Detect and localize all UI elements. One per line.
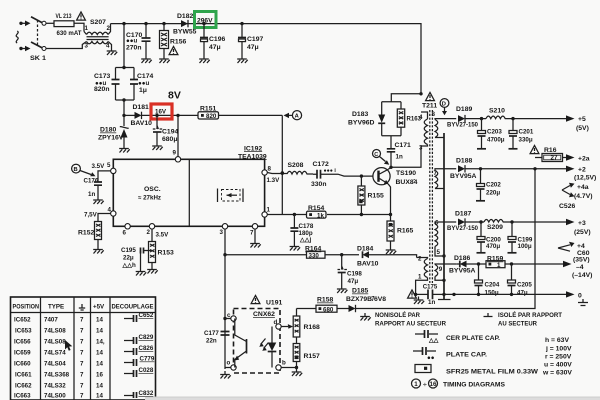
T211 core <box>430 110 433 283</box>
svg-text:RAPPORT AU SECTEUR: RAPPORT AU SECTEUR <box>375 321 446 328</box>
svg-text:14: 14 <box>96 317 103 324</box>
node B with arrow <box>72 164 81 173</box>
svg-text:100μ: 100μ <box>518 243 532 250</box>
svg-text:IC653: IC653 <box>15 328 32 335</box>
svg-text:(–14V): (–14V) <box>572 272 592 279</box>
svg-text:+3: +3 <box>578 220 586 227</box>
svg-text:VL 213: VL 213 <box>56 13 72 20</box>
node A <box>292 111 301 120</box>
capacitor C173 <box>112 80 120 85</box>
svg-text:820n: 820n <box>94 86 110 93</box>
nonisole text <box>360 313 371 321</box>
svg-text:27: 27 <box>551 155 558 162</box>
svg-text:3: 3 <box>220 229 224 236</box>
capacitor C200 <box>480 222 482 237</box>
svg-text:330μ: 330μ <box>519 137 533 144</box>
svg-text:(12,5V): (12,5V) <box>574 175 596 182</box>
junction opto top <box>223 317 226 320</box>
svg-text:C205: C205 <box>517 282 532 289</box>
switch SK1 pole 1 <box>31 17 43 23</box>
svg-text:C779: C779 <box>140 356 155 363</box>
svg-text:7: 7 <box>80 317 84 324</box>
switch linkage dashed <box>37 20 39 45</box>
pin 1 wire to R154 <box>267 214 306 216</box>
svg-text:D181: D181 <box>133 104 149 111</box>
svg-text:7: 7 <box>80 328 84 335</box>
capacitor C204 <box>478 264 480 280</box>
svg-text:0: 0 <box>578 293 582 300</box>
C173/C174 block wires <box>116 24 135 116</box>
sfr25 symbol <box>415 365 431 373</box>
svg-text:C204: C204 <box>485 282 500 289</box>
pin 5 <box>111 168 116 173</box>
svg-text:22μ: 22μ <box>123 255 134 262</box>
svg-text:74LS08: 74LS08 <box>44 339 66 346</box>
svg-text:C028: C028 <box>139 367 154 374</box>
svg-text:ISOLÉ PAR RAPPORT: ISOLÉ PAR RAPPORT <box>498 310 563 319</box>
pin 2 wire 3.5V <box>151 229 153 242</box>
svg-text:BYV95A: BYV95A <box>449 268 476 275</box>
svg-text:C: C <box>374 152 378 158</box>
svg-text:d: d <box>274 319 278 326</box>
svg-text:74LS04: 74LS04 <box>44 361 66 368</box>
svg-text:u = 400V: u = 400V <box>544 362 572 369</box>
svg-text:C829: C829 <box>139 334 154 341</box>
svg-text:R153: R153 <box>158 250 174 257</box>
diode D183 <box>381 102 383 115</box>
pin 8 <box>262 170 267 175</box>
svg-text:C652: C652 <box>139 312 154 319</box>
transistor TS190 <box>373 168 390 185</box>
pin 2 <box>149 224 154 229</box>
wire switch to fuse <box>46 22 54 24</box>
svg-text:16: 16 <box>430 381 437 388</box>
red test box 16V <box>151 104 172 119</box>
arrow into node A <box>284 113 290 118</box>
pin 8 wire <box>267 173 287 174</box>
wire switch bottom to S207 pin3 <box>46 42 87 49</box>
svg-text:S208: S208 <box>288 162 304 169</box>
svg-text:+2: +2 <box>578 167 586 174</box>
+3 arrow <box>566 219 575 225</box>
opto pin b <box>276 365 281 370</box>
svg-text:4: 4 <box>419 114 423 121</box>
isolated ground bar <box>438 299 451 301</box>
svg-text:D182: D182 <box>177 13 193 20</box>
junction R156 <box>162 22 165 25</box>
LED <box>271 327 273 343</box>
svg-text:330: 330 <box>309 252 320 259</box>
mains input terminal L <box>19 22 22 25</box>
bottom scan bar <box>145 397 600 400</box>
S207 pin 4 to ground <box>108 42 111 48</box>
svg-text:1n: 1n <box>396 154 403 161</box>
svg-text:630 mAT: 630 mAT <box>57 30 83 37</box>
svg-text:R156: R156 <box>170 39 186 46</box>
svg-text:C201: C201 <box>519 129 534 136</box>
svg-text:SK 1: SK 1 <box>30 55 46 62</box>
svg-text:1: 1 <box>497 262 501 269</box>
capacitor C174 <box>130 80 138 85</box>
svg-text:△△h: △△h <box>122 262 137 269</box>
svg-text:IC661: IC661 <box>15 372 32 379</box>
svg-text:BYV96D: BYV96D <box>348 119 375 126</box>
svg-text:7: 7 <box>80 383 84 390</box>
svg-text:C175: C175 <box>423 283 438 290</box>
svg-text:47μ: 47μ <box>348 278 359 285</box>
svg-text:150μ: 150μ <box>485 290 499 297</box>
junction to IC pin9 <box>176 114 179 117</box>
svg-text:4: 4 <box>108 207 112 214</box>
+4 / C60 bracket <box>558 245 570 251</box>
wires opto pins d/b <box>281 326 288 328</box>
pin 9 <box>175 157 180 162</box>
svg-text:R159: R159 <box>487 256 503 263</box>
svg-text:U191: U191 <box>266 300 282 307</box>
capacitor C203 <box>481 119 483 131</box>
svg-text:8: 8 <box>268 166 272 173</box>
resistor R157 <box>293 344 300 362</box>
light arrows <box>261 339 269 349</box>
svg-text:74LS32: 74LS32 <box>44 383 66 390</box>
svg-text:OSC.: OSC. <box>144 186 161 193</box>
svg-text:S207: S207 <box>90 19 106 26</box>
svg-text:1μ: 1μ <box>139 87 147 94</box>
junction C-block <box>122 22 125 25</box>
pin 3 vertical wire <box>224 229 226 369</box>
svg-text:7: 7 <box>80 393 84 400</box>
optocoupler U191 <box>251 295 260 303</box>
resistor R16 <box>530 145 539 153</box>
svg-text:7: 7 <box>80 339 84 346</box>
svg-text:4700μ: 4700μ <box>487 137 505 144</box>
opto pin o <box>231 365 236 370</box>
pin 3 <box>222 224 227 229</box>
capacitor C197 <box>241 24 243 38</box>
svg-text:74LS00: 74LS00 <box>44 393 66 400</box>
svg-text:22n: 22n <box>206 338 217 345</box>
resistor R155 <box>360 174 363 177</box>
svg-text:3.5V: 3.5V <box>92 163 106 170</box>
svg-text:h = 63V: h = 63V <box>545 337 569 344</box>
svg-text:IC652: IC652 <box>14 317 31 324</box>
svg-text:220μ: 220μ <box>486 190 500 197</box>
svg-text:C171: C171 <box>395 142 411 149</box>
emitter wire <box>388 184 391 215</box>
wire fuse to S207 <box>74 23 84 31</box>
svg-text:C177: C177 <box>204 330 219 337</box>
svg-text:C196: C196 <box>209 36 225 43</box>
svg-text:16: 16 <box>96 372 103 379</box>
svg-text:7407: 7407 <box>44 317 58 324</box>
plate cap symbol <box>413 350 436 352</box>
pin 7 <box>252 224 257 229</box>
capacitor C199 <box>511 222 513 237</box>
svg-text:7: 7 <box>250 230 254 237</box>
svg-text:680μ: 680μ <box>162 136 178 143</box>
svg-text:74LS08: 74LS08 <box>44 328 66 335</box>
resistor R153 <box>149 242 156 263</box>
svg-text:5: 5 <box>437 249 441 256</box>
decoupling caps <box>124 312 155 398</box>
photo transistor <box>246 339 248 354</box>
svg-text:7: 7 <box>80 350 84 357</box>
warning triangle fuse <box>77 12 86 20</box>
capacitor C205 <box>511 264 513 280</box>
pin 6 <box>125 224 130 229</box>
warning triangle R156 <box>169 46 178 54</box>
junction C170 <box>144 22 147 25</box>
mains input terminal N <box>19 47 22 50</box>
ground S207 <box>107 48 118 56</box>
svg-text:R157: R157 <box>304 353 320 360</box>
svg-text:BAV10: BAV10 <box>131 120 153 127</box>
pin 4 <box>111 211 116 216</box>
capacitor C196 <box>203 24 205 38</box>
node D with arrow <box>440 99 449 108</box>
svg-text:BUX84: BUX84 <box>396 179 418 186</box>
svg-text:TIMING DIAGRAMS: TIMING DIAGRAMS <box>443 382 505 389</box>
svg-text:8V: 8V <box>168 89 181 101</box>
isole text <box>484 313 493 317</box>
svg-text:D184: D184 <box>357 246 373 253</box>
node C with arrow <box>373 150 381 158</box>
svg-text:14: 14 <box>96 383 103 390</box>
junction D181 line left <box>122 114 125 117</box>
svg-text:●●u: ●●u <box>138 80 149 87</box>
svg-text:NONISOLÉ PAR: NONISOLÉ PAR <box>375 310 420 319</box>
svg-text:R165: R165 <box>397 228 413 235</box>
svg-text:270n: 270n <box>126 45 142 52</box>
svg-text:D188: D188 <box>456 158 472 165</box>
svg-text:S209: S209 <box>487 224 503 231</box>
secondary common rail <box>443 133 445 299</box>
switch SK1 pole 2 <box>31 42 43 48</box>
svg-text:8: 8 <box>432 111 436 118</box>
svg-text:IC663: IC663 <box>14 393 31 400</box>
svg-text:o: o <box>227 360 231 367</box>
svg-text:C176: C176 <box>84 178 99 185</box>
svg-text:C174: C174 <box>137 73 153 80</box>
svg-text:BYW55: BYW55 <box>173 29 197 36</box>
collector wire to pin 3 T211 <box>388 146 421 169</box>
-4 arrow <box>563 261 572 267</box>
svg-text:+4a: +4a <box>577 184 589 191</box>
flip flop glyph <box>217 189 219 203</box>
pin 1 <box>262 212 267 217</box>
svg-text:PLATE CAP.: PLATE CAP. <box>446 352 487 359</box>
svg-text:74LS74: 74LS74 <box>44 350 66 357</box>
vertical wire R151 line down to pin1 line <box>281 115 283 214</box>
resistor R152 <box>95 222 102 240</box>
cer plate cap symbol <box>415 333 438 335</box>
svg-text:CNX62: CNX62 <box>253 311 275 318</box>
resistor R156 <box>163 24 165 31</box>
svg-text:14: 14 <box>96 361 103 368</box>
svg-text:r = 250V: r = 250V <box>545 354 572 361</box>
resistor R168 potentiometer <box>296 309 298 317</box>
ground C175 <box>414 297 425 305</box>
timing diagrams symbol <box>412 379 421 388</box>
svg-text:C173: C173 <box>94 73 110 80</box>
svg-text:IC192: IC192 <box>244 145 262 152</box>
svg-text:DECOUPLAGE: DECOUPLAGE <box>112 304 154 311</box>
svg-text:7: 7 <box>80 361 84 368</box>
capacitor C198 <box>340 253 343 256</box>
svg-text:BYV95A: BYV95A <box>450 173 477 180</box>
svg-text:(35V): (35V) <box>573 256 590 263</box>
svg-text:47μ: 47μ <box>247 44 259 51</box>
AC tilde <box>16 31 18 43</box>
svg-text:TYPE: TYPE <box>48 304 64 311</box>
svg-text:47μ: 47μ <box>517 290 528 297</box>
svg-text:(25V): (25V) <box>574 229 591 236</box>
svg-text:R168: R168 <box>304 324 320 331</box>
svg-text:5: 5 <box>107 162 111 169</box>
svg-text:1n: 1n <box>428 299 435 306</box>
capacitor C175 <box>408 290 417 298</box>
capacitor C170 <box>145 24 147 38</box>
svg-text:BZX79B/6V8: BZX79B/6V8 <box>346 296 386 303</box>
svg-text:D187: D187 <box>455 211 471 218</box>
svg-text:1n: 1n <box>88 191 95 198</box>
svg-text:IC656: IC656 <box>14 339 31 346</box>
opto pin d <box>276 324 281 329</box>
table rows <box>14 317 105 400</box>
svg-text:1: 1 <box>267 207 271 214</box>
svg-text:1: 1 <box>414 381 418 388</box>
svg-text:C203: C203 <box>487 129 502 136</box>
capacitor C202 <box>480 169 482 184</box>
capacitor C178 <box>293 215 295 229</box>
svg-text:1.3V: 1.3V <box>267 177 281 184</box>
snubber D183 R163 <box>382 94 421 136</box>
svg-text:SFR25 METAL FILM 0.33W: SFR25 METAL FILM 0.33W <box>446 369 539 376</box>
svg-text:IC660: IC660 <box>14 361 31 368</box>
svg-text:B: B <box>74 167 78 173</box>
svg-text:820: 820 <box>206 113 217 120</box>
svg-text:ZPY16V: ZPY16V <box>98 135 124 142</box>
svg-text:C832: C832 <box>139 390 154 397</box>
svg-text:+2a: +2a <box>578 156 590 163</box>
svg-text:POSITION: POSITION <box>13 304 40 311</box>
main top rail <box>111 24 422 94</box>
svg-text:●●u: ●●u <box>126 38 137 45</box>
svg-text:6: 6 <box>123 230 127 237</box>
wiper arrow at pin d <box>288 324 293 329</box>
svg-text:D185: D185 <box>352 288 368 295</box>
svg-text:+5V: +5V <box>93 304 105 311</box>
svg-text:S210: S210 <box>489 108 505 115</box>
svg-text:D186: D186 <box>454 255 470 262</box>
svg-text:C826: C826 <box>139 345 154 352</box>
svg-text:47μ: 47μ <box>209 44 221 51</box>
svg-text:14: 14 <box>96 393 103 400</box>
green test box 296V <box>195 12 217 28</box>
svg-text:1k: 1k <box>317 212 324 219</box>
svg-text:3.5V: 3.5V <box>156 232 170 239</box>
svg-text:AU SECTEUR: AU SECTEUR <box>498 321 537 328</box>
svg-text:1: 1 <box>418 274 422 281</box>
svg-text:IC662: IC662 <box>15 383 32 390</box>
svg-text:D: D <box>442 102 446 108</box>
resistor R165 <box>390 215 392 222</box>
svg-text:1: 1 <box>85 25 89 32</box>
+2 arrow <box>566 166 575 172</box>
svg-text:BYV27-150: BYV27-150 <box>447 225 478 232</box>
inductor S209 <box>484 220 566 223</box>
svg-text:R155: R155 <box>368 193 384 200</box>
svg-text:330n: 330n <box>311 181 327 188</box>
svg-text:△△: △△ <box>428 337 439 344</box>
svg-text:7,5V: 7,5V <box>84 212 98 219</box>
svg-text:2: 2 <box>147 229 151 236</box>
isolated ground symbol <box>578 299 588 306</box>
svg-text:j = 100V: j = 100V <box>545 346 572 353</box>
svg-text:≈ 27kHz: ≈ 27kHz <box>138 195 161 202</box>
svg-text:14,: 14, <box>96 339 105 346</box>
mouse cursor artifact <box>65 340 72 351</box>
svg-text:C202: C202 <box>486 182 501 189</box>
svg-text:2: 2 <box>418 256 422 263</box>
svg-text:D189: D189 <box>456 106 472 113</box>
capacitor C194 <box>156 115 158 129</box>
svg-text:BAV10: BAV10 <box>357 261 379 268</box>
svg-text:●●● i: ●●● i <box>324 168 337 174</box>
+4a arrows <box>562 186 570 195</box>
svg-text:TS190: TS190 <box>396 170 416 177</box>
svg-text:(5V): (5V) <box>576 125 589 132</box>
svg-text:b: b <box>282 360 286 367</box>
svg-text:9: 9 <box>173 150 177 157</box>
svg-text:△△j: △△j <box>299 237 312 244</box>
junction C196 <box>202 22 205 25</box>
junction C197 <box>240 22 243 25</box>
svg-text:D183: D183 <box>352 111 368 118</box>
svg-text:w = 630V: w = 630V <box>542 370 572 377</box>
svg-text:C197: C197 <box>247 36 263 43</box>
svg-text:T211: T211 <box>422 103 437 110</box>
svg-text:9: 9 <box>439 266 443 273</box>
svg-text:680: 680 <box>323 307 334 314</box>
svg-text:R158: R158 <box>317 297 333 304</box>
svg-text:–4: –4 <box>576 264 584 271</box>
svg-text:14: 14 <box>96 328 103 335</box>
svg-text:CER PLATE CAP.: CER PLATE CAP. <box>446 335 500 342</box>
junction C194 <box>155 114 158 117</box>
svg-text:C198: C198 <box>347 271 362 278</box>
resistor R163 <box>400 102 402 136</box>
IC192 body <box>113 159 264 226</box>
+5 arrow <box>566 115 575 121</box>
svg-text:D180: D180 <box>100 127 116 134</box>
svg-text:74LS368: 74LS368 <box>44 372 70 379</box>
svg-text:C526: C526 <box>559 203 575 210</box>
zener D180 <box>123 115 125 126</box>
svg-text:IC659: IC659 <box>14 350 31 357</box>
svg-text:7: 7 <box>80 372 84 379</box>
svg-text:14: 14 <box>96 350 103 357</box>
svg-text:C195: C195 <box>121 247 136 254</box>
svg-text:(4.7V): (4.7V) <box>574 193 593 200</box>
svg-text:C194: C194 <box>162 129 178 136</box>
svg-text:+5: +5 <box>578 116 586 123</box>
svg-text:BYV27-150: BYV27-150 <box>447 122 478 129</box>
capacitor C201 <box>512 119 514 131</box>
svg-text:R152: R152 <box>78 230 94 237</box>
opto pin c <box>231 316 236 321</box>
svg-text:÷: ÷ <box>423 382 427 389</box>
